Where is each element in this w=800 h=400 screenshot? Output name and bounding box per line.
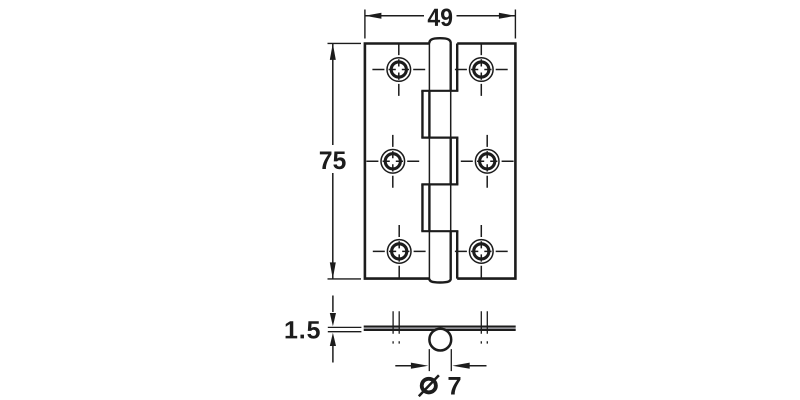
dim dia7 right arrow: [470, 365, 487, 367]
dim 49 arrow right: [499, 13, 516, 19]
hole centerline ticks left: [393, 311, 399, 343]
dim 49 extension line right: [514, 10, 516, 39]
dim 75 extension line top: [328, 42, 362, 44]
hole centerline ticks right: [481, 311, 487, 343]
side view leaf plate top face: [364, 325, 516, 327]
screw hole bottom-right: [455, 225, 508, 278]
label 75: [320, 151, 346, 169]
label 7: [449, 377, 461, 395]
screw hole mid-right: [461, 135, 514, 188]
dim 1.5 extension lines: [328, 327, 362, 331]
dim 75 line: [332, 43, 334, 279]
knuckle junction line 2: [421, 137, 458, 139]
knuckle junction line 3: [421, 183, 458, 185]
knuckle 4 left step: [422, 184, 429, 231]
pin right edge: [450, 43, 452, 280]
side view pin circle: [429, 329, 451, 351]
label 49: [428, 8, 452, 26]
label dia symbol: [419, 375, 439, 396]
dim 1.5 lower leader: [332, 346, 334, 363]
knuckle junction line 1: [421, 90, 458, 92]
dim 75 extension line bottom: [328, 278, 362, 280]
dim 49 line: [365, 15, 516, 17]
dim 1.5 upper leader: [332, 296, 334, 313]
dim 49 extension line left: [364, 10, 366, 39]
knuckle 1 right step: [451, 43, 458, 91]
dim 1.5 upper arrow: [330, 313, 336, 326]
knuckle 3 right step: [451, 138, 458, 185]
dim dia7 left arrow: [395, 365, 411, 367]
side view leaf plate bottom face: [364, 329, 516, 331]
hinge left leaf: [365, 44, 430, 279]
screw hole mid-left: [366, 135, 419, 188]
screw hole bottom-left: [373, 225, 426, 278]
barrel bottom dome: [429, 279, 451, 283]
hinge right leaf: [457, 44, 515, 279]
screw hole top-left: [372, 43, 425, 96]
dim 75 arrow up: [330, 43, 336, 60]
dim 49 arrow left: [365, 13, 382, 19]
label 1.5: [286, 321, 320, 338]
knuckle 2 left step: [422, 91, 429, 138]
knuckle junction line 4: [421, 230, 458, 232]
side view leaf plate core: [364, 327, 516, 329]
dim 75 arrow down: [330, 262, 336, 279]
knuckle 5 right step: [451, 231, 458, 279]
dim 1.5 lower arrow: [330, 333, 336, 346]
screw hole top-right: [455, 43, 508, 96]
pin left edge: [428, 43, 430, 280]
barrel top dome: [429, 38, 451, 43]
dim dia7 extension lines: [429, 349, 451, 371]
